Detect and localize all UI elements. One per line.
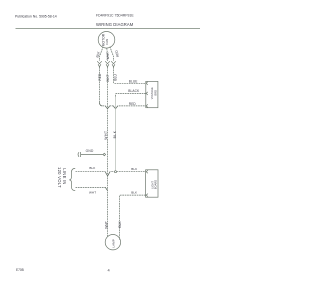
board U1 pin 1 — [146, 82, 148, 85]
svg-text:BLK: BLK — [131, 191, 137, 195]
wire black from board down to junction — [116, 93, 146, 96]
connector chevrons wire 3 — [111, 61, 116, 67]
lamp DS1 circle — [105, 235, 120, 250]
svg-text:RED: RED — [129, 102, 137, 106]
svg-text:WHT: WHT — [106, 52, 110, 60]
wire black vertical run light — [115, 97, 117, 171]
connector chevrons wire 1 — [97, 61, 102, 67]
svg-text:BRD: BRD — [154, 90, 158, 96]
svg-text:BLK: BLK — [131, 167, 137, 171]
line-in black dip solid mark — [105, 172, 110, 176]
board U1 pin 3 — [146, 104, 148, 107]
junction circle on black wire — [115, 171, 117, 173]
svg-text:BLACK: BLACK — [128, 89, 140, 93]
svg-text:WHT: WHT — [104, 221, 108, 229]
wire red with crossover dips to board — [100, 67, 146, 109]
wire black from board 2 to lamp — [119, 195, 145, 240]
svg-text:VOLTAGE: VOLTAGE — [150, 87, 154, 99]
wire white line-in joining vertical — [76, 187, 108, 190]
svg-text:GND: GND — [86, 149, 94, 153]
svg-text:BLUE: BLUE — [129, 80, 138, 84]
connector chevrons wire 2 — [105, 61, 110, 67]
high voltage board U1 — [146, 81, 158, 107]
line in brace — [69, 168, 75, 190]
wire black junction to board 2 — [117, 171, 146, 173]
svg-text:LAMP: LAMP — [111, 239, 115, 247]
light board U2 — [146, 170, 158, 197]
wire red crossover dip solid marks — [100, 102, 118, 109]
board U2 pin 1 — [146, 170, 148, 173]
board U1 pin 2 — [146, 92, 148, 95]
line-in white join solid mark — [105, 187, 107, 190]
svg-text:Publication No. 5995-58-14: Publication No. 5995-58-14 — [15, 14, 57, 18]
svg-text:FD4RF91C 75D4RF91E: FD4RF91C 75D4RF91E — [96, 14, 134, 18]
wire lead 3 from motor — [110, 47, 114, 61]
svg-text:WHT: WHT — [89, 191, 96, 195]
svg-text:120 VOLT: 120 VOLT — [57, 167, 62, 188]
board U2 pin 2 — [146, 194, 148, 197]
svg-text:FAN: FAN — [105, 39, 109, 45]
svg-text:BLK: BLK — [118, 221, 122, 228]
ground terminal diamond — [103, 153, 106, 156]
wire black line-in with crossover dip — [76, 172, 115, 176]
svg-text:WIRING DIAGRAM: WIRING DIAGRAM — [96, 22, 134, 27]
svg-text:WHT: WHT — [106, 74, 110, 82]
fan motor M1 circle — [98, 32, 115, 49]
wire white main vertical — [107, 67, 109, 236]
svg-text:BLU: BLU — [113, 74, 117, 81]
svg-text:LINE IN: LINE IN — [62, 168, 67, 184]
ground symbol — [78, 152, 81, 157]
wire lead 2 from motor — [106, 48, 109, 61]
svg-text:BLK: BLK — [113, 130, 117, 138]
wire lead 1 from motor — [100, 47, 104, 61]
wire blue to board — [114, 67, 146, 83]
header rule — [16, 28, 201, 30]
page background — [0, 0, 218, 285]
svg-text:WHT: WHT — [104, 130, 108, 139]
ground wire — [81, 154, 103, 156]
svg-text:BLK: BLK — [89, 166, 95, 170]
svg-text:E70B: E70B — [16, 268, 24, 272]
svg-text:BOARD: BOARD — [154, 180, 158, 189]
